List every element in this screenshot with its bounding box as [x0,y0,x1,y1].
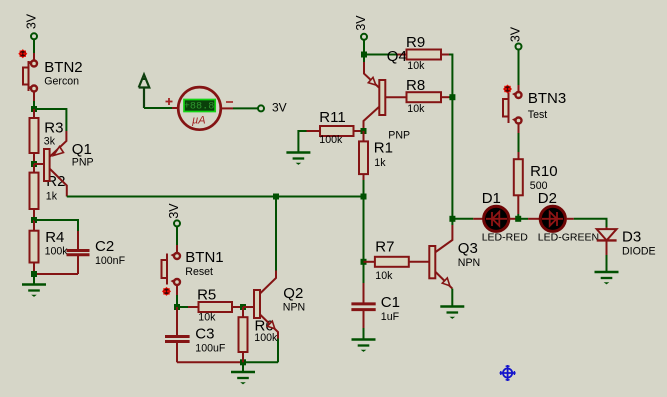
label Q4 [387,48,410,142]
Q1 collector [50,169,67,197]
svg-text:LED-RED: LED-RED [482,232,529,244]
wire Q1 collector bus [67,196,364,198]
blue origin marker [500,365,516,381]
led D1 [484,206,509,231]
wire power arrow to ammeter [144,107,179,109]
Q4 collector [364,107,379,131]
Q1 base pin [34,163,44,165]
svg-text:Q4: Q4 [387,48,407,65]
Q2 base pin [243,306,254,308]
svg-text:R10: R10 [530,163,558,180]
resistor R8 [407,92,450,102]
label Q1 [72,141,94,169]
resistor R9 [407,50,450,60]
Q2 emitter [260,315,278,363]
svg-text:1uF: 1uF [381,311,400,323]
svg-text:100uF: 100uF [195,343,226,355]
svg-text:R1: R1 [374,140,393,157]
transistor Q3 body [429,246,435,278]
svg-text:3V: 3V [354,15,368,31]
svg-text:D3: D3 [622,229,641,246]
label R7 [375,239,394,283]
wire Q3 collector to D1 [452,218,483,220]
label Q2 [283,285,305,314]
svg-text:3V: 3V [25,13,39,29]
wire node L to ground [242,362,244,372]
label C1 [381,294,400,323]
ground (node L) [231,372,255,384]
label BTN3 [528,90,566,121]
svg-text:Q1: Q1 [72,141,92,158]
svg-text:+88.8: +88.8 [184,101,215,112]
node B junction (Q1 base) [31,161,37,167]
pushbutton BTN1 [162,253,181,285]
power terminal 3V (BTN2 top) [25,13,39,39]
node A junction [31,106,37,112]
svg-text:BTN3: BTN3 [528,90,566,107]
svg-text:R8: R8 [406,77,425,94]
ground (left column) [22,285,46,297]
svg-text:NPN: NPN [283,302,305,314]
resistor R1 [359,131,368,180]
label R11 [319,109,345,146]
svg-text:100k: 100k [254,332,278,344]
node N junction (Q3 collector) [449,216,455,222]
resistor R2 [30,164,39,220]
pushbutton BTN3 [503,92,522,124]
Q4 base pin [385,96,406,98]
power terminal 3V (Q4) [354,15,368,40]
svg-text:100k: 100k [319,134,343,146]
ammeter minus sign [226,101,233,103]
wire C3 to node L [177,361,243,363]
node I junction (bus end) [361,194,367,200]
node M junction (Q2 base) [240,304,246,310]
svg-text:1k: 1k [46,191,58,203]
label C3 [195,326,226,355]
wire 3V to BTN3 [518,50,520,93]
label R1 [374,140,393,170]
svg-text:µA: µA [192,115,206,127]
svg-text:R3: R3 [44,119,63,136]
capacitor C3 [165,307,190,362]
wire node C to C2 top [34,220,78,231]
power terminal 3V (BTN3) [509,26,523,49]
node H junction (R11-Q4-R1) [361,128,367,134]
label R5 [197,287,216,324]
label D1 [482,190,529,244]
svg-text:C3: C3 [195,326,214,343]
wire D1 to node O [510,218,519,220]
svg-text:Test: Test [528,109,547,121]
label D3 [622,229,656,258]
resistor R10 [514,159,523,219]
label C2 [95,238,126,267]
svg-text:BTN2: BTN2 [44,59,82,76]
node D junction [31,271,37,277]
svg-text:Gercon: Gercon [44,76,79,88]
ground (D3) [595,272,619,284]
svg-text:10k: 10k [375,270,393,282]
label R9 [406,34,425,72]
resistor R11 [307,126,364,136]
label R8 [406,77,425,115]
svg-text:R5: R5 [197,287,216,304]
wire R1 to bus [363,180,365,197]
led D2 [540,206,565,231]
ground (C1) [352,340,376,352]
wire ammeter to 3V terminal [221,107,258,109]
Q3 emitter [436,272,453,307]
svg-text:100k: 100k [45,246,69,258]
svg-text:Reset: Reset [185,266,213,278]
red marker BTN1 [162,287,171,296]
red marker BTN2 [18,49,27,58]
ammeter U1 body [178,87,221,130]
svg-text:C1: C1 [381,294,400,311]
label D2 [538,190,599,244]
svg-text:3V: 3V [509,26,523,42]
Q3 collector [436,219,453,252]
svg-text:1k: 1k [374,157,386,169]
capacitor C1 [351,304,375,340]
svg-text:PNP: PNP [72,157,94,169]
power terminal 3V (BTN1) [167,203,181,227]
node L junction [240,359,246,365]
resistor R3 [30,109,39,164]
label BTN2 [44,59,82,88]
svg-text:100nF: 100nF [95,255,126,267]
wire node F to R9 [364,54,407,56]
svg-text:LED-GREEN: LED-GREEN [538,232,599,244]
wire R11 to ground [298,131,306,153]
transistor Q2 body [254,290,260,318]
ammeter plus sign [166,98,173,105]
svg-text:D2: D2 [538,190,557,207]
wire D2 to D3 [566,219,606,227]
wire bus to node J [363,197,365,262]
label Q3 [458,240,480,269]
svg-text:R4: R4 [45,229,64,246]
power arrow terminal [139,75,150,109]
svg-text:R9: R9 [406,34,425,51]
label R2 [46,173,66,203]
ground (Q3) [440,307,464,319]
wire Q2 collector riser [275,197,277,271]
wire R9/R8 riser [449,55,452,219]
svg-text:10k: 10k [198,312,216,324]
wire BTN3 to R10 [518,124,520,160]
Q2 collector [260,271,276,294]
node J junction (R7 tap) [361,259,367,265]
ammeter LCD [184,100,215,113]
Q4 emitter [364,55,379,88]
label BTN1 [185,249,223,278]
wire rail node L to Q2 emitter [243,361,278,363]
transistor Q4 body [379,80,385,115]
node O junction (R10-D1-D2) [515,216,521,222]
wire BTN1 to node K [176,285,178,307]
label R10 [530,163,558,192]
svg-text:10k: 10k [407,103,425,115]
svg-text:3V: 3V [272,101,287,115]
wire 3V to node F [363,40,365,55]
wire 3V to BTN2 [33,39,35,60]
red marker BTN3 [503,84,512,93]
svg-text:D1: D1 [482,190,501,207]
wire BTN2 to node A [33,92,35,110]
svg-text:DIODE: DIODE [622,246,656,258]
svg-text:10k: 10k [407,60,425,72]
wire 3V to BTN1 [176,226,178,253]
resistor R7 [364,257,430,267]
wire node A to Q1 emitter [34,109,66,131]
wire C2 bottom to node D [34,273,78,275]
power terminal 3V (meter) [258,105,264,111]
wire node O to D2 [518,218,539,220]
label R4 [45,229,69,258]
wire node K to R5 [177,306,199,308]
capacitor C2 [67,231,90,274]
ground (R11) [286,153,310,165]
svg-text:Q2: Q2 [283,285,303,302]
svg-text:Q3: Q3 [458,240,478,257]
resistor R4 [30,220,39,274]
svg-text:NPN: NPN [458,257,480,269]
node F junction [361,52,367,58]
node E junction (Q2 collector tap) [273,194,279,200]
pushbutton BTN2 [23,61,37,92]
resistor R5 [199,302,244,312]
transistor Q1 body [44,149,50,181]
label R3 [44,119,64,147]
label R6 [254,318,278,345]
svg-text:C2: C2 [95,238,114,255]
svg-text:3V: 3V [167,203,181,219]
node G junction (R8 tap) [449,94,455,100]
svg-text:BTN1: BTN1 [185,249,223,266]
svg-text:R11: R11 [319,109,345,126]
resistor R6 [239,307,248,362]
wire node D to ground [33,274,35,285]
diode D3 [597,227,617,272]
ammeter uA label [192,115,206,127]
svg-text:3k: 3k [44,136,56,148]
node K junction [174,304,180,310]
node C junction [31,217,37,223]
svg-text:R7: R7 [375,239,394,256]
label 3V (meter) [272,101,287,115]
wire node J to C1 [363,262,365,303]
Q1 emitter [50,131,66,157]
